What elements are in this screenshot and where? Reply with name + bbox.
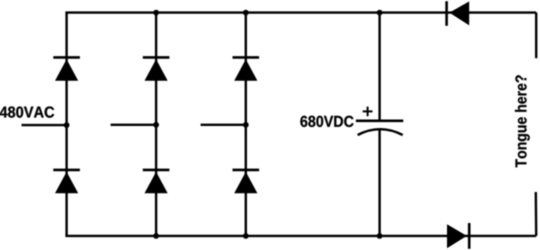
- wire capacitor bottom lead: [378, 129, 380, 236]
- capacitor C1 bottom curved plate: [358, 129, 403, 135]
- wire bottom bus: [65, 235, 536, 237]
- node top bus / capacitor: [377, 10, 383, 16]
- capacitor C1 plus sign: [363, 107, 373, 117]
- node bottom bus / leg3: [243, 233, 249, 239]
- node AC input leg1: [64, 122, 70, 128]
- node top bus / leg2: [153, 10, 159, 16]
- node AC input leg2: [153, 122, 159, 128]
- wire 480VAC input: [22, 124, 67, 126]
- wire right rail bottom segment: [535, 192, 538, 236]
- wire right rail top segment: [535, 13, 537, 59]
- wire capacitor top lead: [378, 13, 380, 121]
- diode D1 leg1 top: [53, 57, 80, 80]
- node top bus / leg3: [243, 10, 249, 16]
- label 680VDC: [300, 116, 353, 127]
- wire phase stub 2: [111, 124, 157, 126]
- node bottom bus / leg2: [153, 233, 159, 239]
- wire phase stub 3: [201, 124, 246, 126]
- diode D7 top rail (points left): [447, 1, 470, 26]
- wire leg 3 vertical: [245, 13, 247, 236]
- label Tongue here?: [515, 75, 530, 167]
- diode D2 leg1 bottom: [53, 170, 80, 193]
- node bottom bus / capacitor: [377, 233, 383, 239]
- diode D4 leg2 bottom: [143, 170, 170, 193]
- wire leg 1 vertical: [65, 13, 67, 236]
- wire top bus: [65, 11, 536, 13]
- diode D8 bottom rail (points right): [447, 223, 469, 249]
- label 480VAC: [0, 107, 54, 118]
- wire leg 2 vertical: [155, 13, 157, 236]
- node AC input leg3: [243, 122, 249, 128]
- diode D5 leg3 top: [233, 57, 260, 80]
- diode D6 leg3 bottom: [233, 170, 260, 193]
- diode D3 leg2 top: [143, 57, 170, 80]
- capacitor C1 top plate: [356, 120, 403, 123]
